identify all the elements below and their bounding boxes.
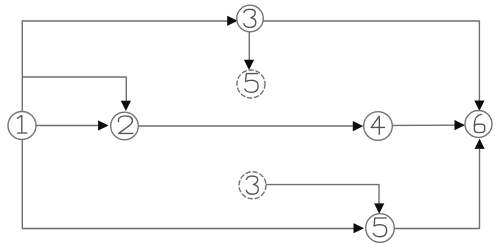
node 3 dashed circle (bottom) [239, 172, 266, 199]
node 6 circle [465, 111, 492, 138]
dashed node 3 label "3" [246, 176, 258, 194]
wire node3 right to upper-right corner [263, 21, 479, 101]
node 4 label "4" [371, 116, 384, 134]
wire node5 right then up to node6 [394, 149, 479, 228]
arrowhead into node5 top [374, 203, 384, 213]
node 3 label "3" [244, 9, 256, 27]
arrowhead into dashed node5 top [244, 60, 254, 70]
node 1 label "1" [17, 115, 27, 133]
arrowhead into node6 bottom [475, 139, 485, 149]
node 3 circle (top) [237, 5, 264, 32]
wire node1 down to bottom [21, 140, 23, 229]
arrowhead into node6 top [474, 101, 484, 111]
arrowhead into node4 left [353, 121, 364, 131]
arrowhead into node3 left [227, 16, 238, 26]
arrowhead into node6 left [455, 120, 466, 130]
wire top horizontal to node 3 [22, 20, 228, 22]
arrowhead into node2 top [121, 101, 131, 111]
node 2 circle [111, 112, 139, 140]
node 6 label "6" [474, 114, 484, 132]
arrowhead into node2 left [98, 120, 109, 130]
arrowhead into node5 bottom-left [354, 223, 365, 233]
wire branch from left vertical to above node2 [22, 77, 126, 102]
node 4 circle [364, 112, 393, 141]
node 5 label "5" [373, 218, 386, 237]
wire node3 down to dashed node5 [248, 32, 250, 60]
node 2 label "2" [119, 116, 133, 133]
wire node1 to node2 [36, 125, 99, 127]
node 5 circle (bottom) [366, 214, 395, 243]
node 5 dashed circle (below node 3) [237, 70, 265, 98]
wire bottom horizontal to node5 [22, 228, 354, 230]
dashed node 5 label "5" [245, 74, 258, 93]
wire node4 to node6 [393, 124, 456, 126]
node 1 circle [8, 112, 36, 140]
wire dashed node3 to corner above node5 [266, 185, 379, 204]
wire node2 to node4 [138, 125, 353, 127]
wire node1 top to upper-left corner [21, 21, 23, 112]
